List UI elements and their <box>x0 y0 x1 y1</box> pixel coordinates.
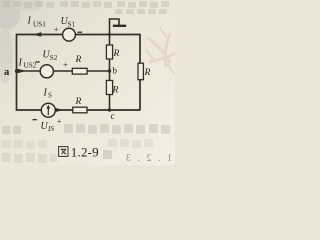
current arrow after IS (points right) <box>55 108 64 112</box>
wire: bottom horizontal <box>17 109 141 111</box>
node c <box>108 108 115 121</box>
voltage source US1 <box>63 28 76 41</box>
label R lower <box>112 86 119 96</box>
plus of US2 <box>63 60 68 70</box>
minus of US2 <box>36 61 40 62</box>
minus of US1 <box>78 32 83 33</box>
svg-text:US1: US1 <box>33 21 46 29</box>
svg-text:R: R <box>75 97 82 107</box>
svg-text:US2: US2 <box>24 62 37 70</box>
faint bleed text row 3 <box>2 153 57 163</box>
minus of U_IS <box>33 119 37 120</box>
resistor R lower middle branch <box>106 81 112 95</box>
resistor R horizontal middle <box>72 68 87 74</box>
svg-text:R: R <box>113 49 120 59</box>
ground symbol <box>110 19 127 35</box>
paper smudge top-middle <box>2 1 169 14</box>
faint pink bleed bottom-right <box>120 153 173 164</box>
wire: left vertical <box>16 34 18 111</box>
svg-text:b: b <box>113 66 118 76</box>
faint gray bleed square bottom-middle <box>103 150 112 159</box>
resistor R upper middle branch <box>106 45 112 59</box>
current source IS <box>41 103 55 117</box>
node a <box>4 67 18 78</box>
svg-text:S: S <box>48 92 52 100</box>
svg-text:R: R <box>144 68 151 78</box>
svg-text:+: + <box>63 60 68 70</box>
svg-text:I: I <box>18 58 23 69</box>
label R upper <box>113 49 120 59</box>
pink bleed marks right side <box>146 28 174 74</box>
voltage source US2 <box>40 65 53 78</box>
label R bottom <box>75 97 82 107</box>
label U_IS <box>41 121 55 133</box>
paper stain top-left <box>0 0 43 84</box>
svg-text:IS: IS <box>47 125 54 133</box>
svg-text:I: I <box>43 88 48 99</box>
faint bleed text row 1 <box>2 124 170 134</box>
caption text 1.2-9 <box>71 144 99 159</box>
plus of U_IS <box>57 116 62 126</box>
svg-text:+: + <box>57 116 62 126</box>
caption glyph 图 <box>59 147 68 157</box>
current arrow I_US2 (points right) <box>18 69 27 73</box>
svg-text:c: c <box>111 111 115 121</box>
faint bleed text row 2 <box>2 139 153 149</box>
resistor R bottom branch <box>73 107 87 113</box>
label U_S2 <box>43 50 58 63</box>
svg-text:S2: S2 <box>50 54 58 62</box>
wire: middle vertical branch <box>109 35 111 111</box>
svg-text:+: + <box>54 24 59 34</box>
junction dot top of middle branch <box>108 33 111 36</box>
svg-text:1.2.3: 1.2.3 <box>120 153 173 164</box>
svg-text:a: a <box>4 67 10 78</box>
svg-text:1.2-9: 1.2-9 <box>71 144 99 159</box>
svg-text:R: R <box>112 86 119 96</box>
label I_S <box>43 88 53 100</box>
svg-text:I: I <box>27 16 32 27</box>
wire: top horizontal <box>17 34 141 36</box>
node b <box>108 66 118 76</box>
wire: right vertical <box>139 34 141 111</box>
label U_S1 <box>61 16 76 29</box>
plus of US1 <box>54 24 59 34</box>
current arrow I_US1 (points left) <box>33 32 42 36</box>
label I_US1 <box>27 16 47 29</box>
resistor R right branch <box>138 63 143 79</box>
label I_US2 <box>18 58 37 70</box>
svg-text:S1: S1 <box>68 21 76 29</box>
wire: middle horizontal a to b <box>17 70 110 72</box>
label R middle <box>75 55 82 65</box>
svg-text:R: R <box>75 55 82 65</box>
label R right <box>144 68 151 78</box>
